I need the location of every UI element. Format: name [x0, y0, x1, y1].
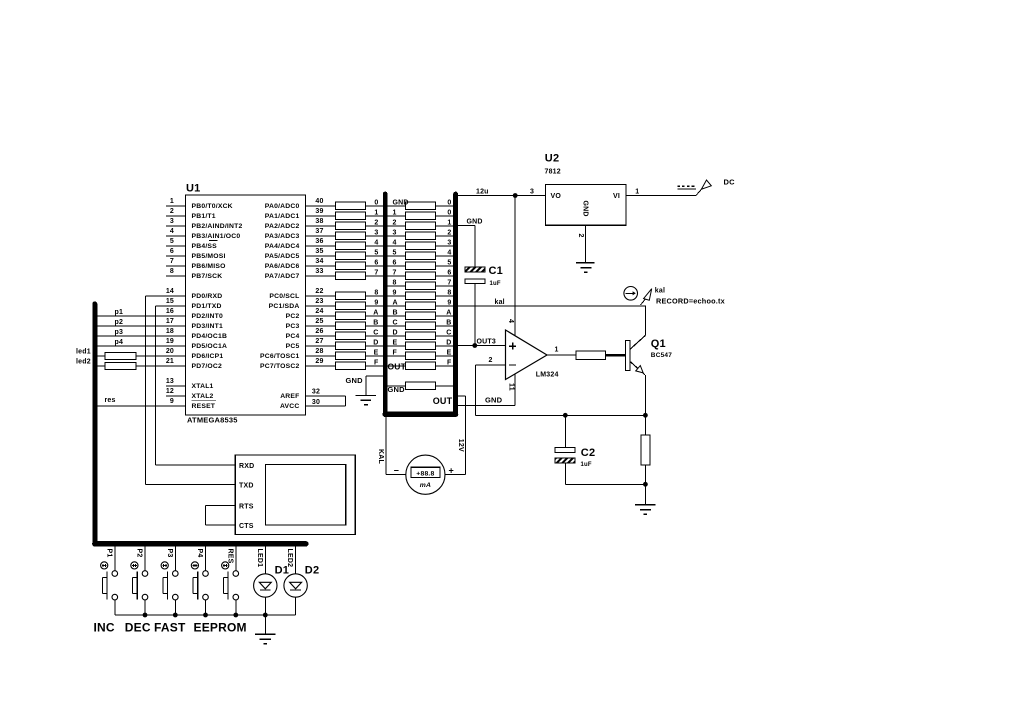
- svg-text:AVCC: AVCC: [280, 403, 300, 410]
- ground: [576, 262, 595, 264]
- svg-text:mA: mA: [420, 482, 431, 489]
- button P2 bottom contact: [142, 594, 148, 600]
- svg-text:PC0/SCL: PC0/SCL: [269, 293, 299, 300]
- svg-text:GND: GND: [346, 376, 364, 385]
- ground: [356, 395, 377, 397]
- resistor R13 (PC4 to bus): [335, 332, 365, 340]
- resistor RN8 (bus row 7/6): [406, 272, 436, 280]
- U1 pin 38 PA2/ADC2 stub: [306, 225, 336, 227]
- svg-text:8: 8: [170, 268, 174, 275]
- svg-text:ATMEGA8535: ATMEGA8535: [187, 416, 238, 425]
- junction: [233, 613, 238, 618]
- led D1 body: [254, 574, 277, 597]
- wire: [388, 335, 406, 337]
- wire: [436, 235, 454, 237]
- svg-text:36: 36: [315, 238, 323, 245]
- svg-text:5: 5: [393, 249, 397, 256]
- svg-text:2: 2: [170, 208, 174, 215]
- U1 pin 18 PD4/OC1B stub: [166, 335, 186, 337]
- svg-text:2: 2: [489, 357, 493, 364]
- U1 pin 28 PC6/TOSC1 stub: [306, 355, 336, 357]
- wire: [365, 345, 383, 347]
- svg-text:26: 26: [315, 328, 323, 335]
- svg-text:7: 7: [393, 269, 397, 276]
- svg-text:P4: P4: [196, 549, 203, 558]
- U1 pin 34 PA6/ADC6 stub: [306, 265, 336, 267]
- svg-text:OUT: OUT: [388, 361, 407, 371]
- wire: [436, 315, 454, 317]
- capacitor C2 plate (hatched): [555, 458, 575, 463]
- svg-text:RTS: RTS: [239, 504, 254, 511]
- svg-text:3: 3: [393, 229, 397, 236]
- button P2 wire top: [144, 547, 146, 571]
- wire: [388, 305, 406, 307]
- svg-text:1: 1: [374, 209, 378, 216]
- button P2 actuator icon: [131, 562, 138, 569]
- resistor R7 (PA6 to bus): [335, 262, 365, 270]
- wire: [97, 365, 105, 367]
- svg-text:0: 0: [374, 199, 378, 206]
- svg-text:RECORD=echoo.tx: RECORD=echoo.tx: [656, 296, 725, 305]
- resistor RN16 (bus row F/E): [406, 352, 436, 360]
- svg-text:PB0/T0/XCK: PB0/T0/XCK: [192, 203, 233, 210]
- button RES pole: [227, 571, 229, 599]
- op-amp pin 2 wire: [476, 364, 506, 366]
- U1 pin 13 XTAL1 stub: [166, 385, 186, 387]
- svg-text:p4: p4: [115, 339, 124, 346]
- button P4 actuator bracket: [192, 578, 194, 594]
- wire: [564, 415, 566, 447]
- resistor R5 (PA4 to bus): [335, 242, 365, 250]
- wire: [365, 355, 383, 357]
- svg-text:F: F: [374, 359, 379, 366]
- button P4 actuator icon: [191, 562, 198, 569]
- junction: [643, 482, 648, 487]
- wire p2: [97, 325, 186, 327]
- svg-text:PC7/TOSC2: PC7/TOSC2: [260, 363, 299, 370]
- wire: [136, 355, 185, 357]
- svg-text:PC3: PC3: [286, 323, 300, 330]
- wire: [365, 225, 383, 227]
- button P3 actuator bracket: [162, 578, 164, 594]
- svg-text:34: 34: [315, 258, 323, 265]
- svg-text:D2: D2: [305, 564, 319, 576]
- wire: [436, 265, 454, 267]
- svg-text:E: E: [393, 339, 398, 346]
- thick base wire: [606, 354, 626, 357]
- led D2 triangle: [290, 582, 302, 589]
- resistor R14 (PC5 to bus): [335, 342, 365, 350]
- svg-text:PB6/MISO: PB6/MISO: [192, 263, 226, 270]
- svg-text:F: F: [447, 359, 452, 366]
- resistor R12 (PC3 to bus): [335, 322, 365, 330]
- resistor R10 (PC1 to bus): [335, 302, 365, 310]
- U1 pin 4 PB3/AIN1/OC0 stub: [166, 235, 186, 237]
- button P1 actuator bracket: [101, 578, 103, 594]
- transistor Q1 base bar: [625, 340, 630, 370]
- svg-text:2: 2: [393, 219, 397, 226]
- svg-text:PD2/INT0: PD2/INT0: [192, 313, 223, 320]
- svg-text:0: 0: [447, 199, 451, 206]
- U1 pin 16 PD2/INT0 stub: [166, 315, 186, 317]
- resistor R8 (PA7 to bus): [335, 272, 365, 280]
- svg-text:PA3/ADC3: PA3/ADC3: [265, 233, 300, 240]
- resistor RN12 (bus row B/A): [406, 312, 436, 320]
- wire: [365, 376, 367, 396]
- junction: [643, 413, 648, 418]
- svg-text:4: 4: [507, 319, 514, 323]
- svg-text:C: C: [446, 329, 451, 336]
- wire: [644, 415, 646, 435]
- wire: [644, 465, 646, 484]
- wire: [388, 355, 406, 357]
- svg-text:37: 37: [315, 228, 323, 235]
- svg-text:B: B: [393, 309, 398, 316]
- button P4 top contact: [203, 571, 209, 577]
- resistor R4 (PA3 to bus): [335, 232, 365, 240]
- svg-text:PD7/OC2: PD7/OC2: [192, 363, 223, 370]
- button P4 pole: [197, 571, 199, 599]
- button P1 wire bottom: [114, 600, 116, 615]
- U1 pin 30 AVCC stub: [306, 405, 346, 407]
- svg-text:5: 5: [374, 249, 378, 256]
- svg-text:19: 19: [166, 338, 174, 345]
- svg-text:6: 6: [393, 259, 397, 266]
- svg-text:2: 2: [447, 229, 451, 236]
- wire: [388, 235, 406, 237]
- U1 pin 19 PD5/OC1A stub: [166, 345, 186, 347]
- svg-text:16: 16: [166, 308, 174, 315]
- wire: [365, 315, 383, 317]
- resistor R3 (PA2 to bus): [335, 222, 365, 230]
- wire 12u rail: [458, 195, 545, 197]
- svg-text:E: E: [447, 349, 452, 356]
- button P2 top contact: [142, 571, 148, 577]
- resistor RN3 (bus row 2/1): [406, 222, 436, 230]
- svg-text:38: 38: [315, 218, 323, 225]
- svg-text:OUT3: OUT3: [477, 338, 496, 345]
- button P3 wire top: [174, 547, 176, 571]
- wire OUT to meter: [458, 395, 466, 397]
- wire kal: [458, 305, 646, 307]
- button RES top contact: [233, 571, 239, 577]
- svg-text:PC6/TOSC1: PC6/TOSC1: [260, 353, 299, 360]
- svg-text:RESET: RESET: [192, 403, 216, 410]
- wire: [436, 335, 454, 337]
- resistor R2 (base): [576, 351, 606, 359]
- ground: [644, 484, 646, 505]
- wire: [474, 226, 476, 268]
- wire: [436, 345, 454, 347]
- U1 pin 22 PC0/SCL stub: [306, 295, 336, 297]
- led D2 body: [284, 574, 307, 597]
- wire: [436, 215, 454, 217]
- wire res: [97, 405, 186, 407]
- wire: [388, 215, 406, 217]
- svg-text:6: 6: [447, 269, 451, 276]
- resistor RN1 (bus row GND/0): [406, 202, 436, 210]
- svg-text:PB7/SCK: PB7/SCK: [192, 273, 223, 280]
- button P2 pole: [136, 571, 138, 599]
- svg-text:20: 20: [166, 348, 174, 355]
- svg-text:PB4/SS: PB4/SS: [192, 243, 218, 250]
- svg-text:FAST: FAST: [154, 620, 186, 634]
- svg-text:1uF: 1uF: [581, 462, 592, 468]
- svg-text:AREF: AREF: [280, 393, 299, 400]
- resistor R1 (PA0 to bus): [335, 202, 365, 210]
- U1 pin 5 PB4/SS stub: [166, 245, 186, 247]
- U1 pin 33 PA7/ADC7 stub: [306, 275, 336, 277]
- wire: [365, 365, 383, 367]
- U1 pin 1 PB0/T0/XCK stub: [166, 205, 186, 207]
- svg-text:+: +: [448, 466, 453, 476]
- svg-text:12V: 12V: [457, 439, 464, 452]
- resistor R5 (emitter): [641, 435, 650, 465]
- resistor RN18 (bus GND row): [406, 382, 436, 390]
- svg-text:kal: kal: [655, 288, 665, 295]
- wire: [365, 335, 383, 337]
- wire RTS-CTS loop: [206, 505, 236, 507]
- svg-text:PC2: PC2: [286, 313, 300, 320]
- svg-text:PC4: PC4: [286, 333, 300, 340]
- U1 pin 27 PC5 stub: [306, 345, 336, 347]
- IC U1 ATMEGA8535 body: [186, 195, 306, 415]
- resistor RN14 (bus row D/C): [406, 332, 436, 340]
- button P1 bottom contact: [112, 594, 118, 600]
- wire TXD: [146, 484, 236, 486]
- svg-text:30: 30: [312, 399, 320, 406]
- svg-text:25: 25: [315, 318, 323, 325]
- svg-text:3: 3: [530, 188, 534, 195]
- svg-text:3: 3: [170, 218, 174, 225]
- svg-text:XTAL2: XTAL2: [192, 393, 214, 400]
- svg-text:GND: GND: [467, 218, 483, 225]
- button RES wire top: [235, 547, 237, 571]
- button P3 wire bottom: [174, 600, 176, 615]
- svg-text:1: 1: [635, 188, 639, 195]
- svg-text:4: 4: [447, 249, 451, 256]
- svg-text:PA1/ADC1: PA1/ADC1: [265, 213, 300, 220]
- resistor RN15 (bus row E/D): [406, 342, 436, 350]
- wire: [388, 385, 406, 387]
- svg-text:33: 33: [315, 268, 323, 275]
- resistor R11 (PC2 to bus): [335, 312, 365, 320]
- svg-text:res: res: [105, 397, 116, 404]
- led D1 cathode bar: [260, 589, 271, 591]
- svg-text:PA4/ADC4: PA4/ADC4: [265, 243, 300, 250]
- wire pin15 to vertical: [155, 305, 185, 307]
- junction: [203, 613, 208, 618]
- U1 pin 21 PD7/OC2 stub: [166, 365, 186, 367]
- svg-text:PA7/ADC7: PA7/ADC7: [265, 273, 300, 280]
- svg-text:PA5/ADC5: PA5/ADC5: [265, 253, 300, 260]
- wire meter minus: [385, 417, 387, 475]
- svg-text:GND: GND: [388, 385, 406, 394]
- Q1 emitter: [630, 362, 645, 375]
- svg-text:4: 4: [393, 239, 397, 246]
- svg-text:PB2/AIND/INT2: PB2/AIND/INT2: [192, 223, 243, 230]
- U1 pin 17 PD3/INT1 stub: [166, 325, 186, 327]
- U2 pin 1 wire: [626, 195, 696, 197]
- junction: [263, 613, 268, 618]
- mcu bus vertical: [92, 304, 97, 544]
- button RES wire bottom: [235, 600, 237, 615]
- bus left leg: [383, 194, 388, 414]
- button P1 pole: [106, 571, 108, 599]
- svg-text:12: 12: [166, 388, 174, 395]
- resistor R2 (PA1 to bus): [335, 212, 365, 220]
- svg-text:led2: led2: [76, 358, 91, 365]
- button P1 actuator icon: [101, 562, 108, 569]
- wire emitter down: [644, 375, 646, 416]
- wire p1: [97, 315, 186, 317]
- svg-text:A: A: [373, 309, 378, 316]
- svg-text:2: 2: [577, 234, 584, 238]
- resistor RN11 (bus row A/9): [406, 302, 436, 310]
- button RES bottom contact: [233, 594, 239, 600]
- svg-text:12u: 12u: [476, 188, 489, 195]
- svg-text:21: 21: [166, 358, 174, 365]
- U1 pin 26 PC4 stub: [306, 335, 336, 337]
- svg-text:PD4/OC1B: PD4/OC1B: [192, 333, 228, 340]
- wire bottom rail: [115, 614, 296, 616]
- junction on OUT3: [472, 343, 477, 348]
- svg-text:6: 6: [374, 259, 378, 266]
- op-amp pin 11 wire: [514, 374, 516, 405]
- op-amp U3 LM324: [506, 330, 548, 380]
- wire: [436, 295, 454, 297]
- svg-text:C1: C1: [489, 265, 503, 277]
- svg-text:PA0/ADC0: PA0/ADC0: [265, 203, 300, 210]
- U1 pin 24 PC2 stub: [306, 315, 336, 317]
- svg-text:EEPROM: EEPROM: [194, 620, 247, 634]
- U1 pin 20 PD6/ICP1 stub: [166, 355, 186, 357]
- resistor R7 (led2): [105, 362, 136, 369]
- U1 pin 39 PA1/ADC1 stub: [306, 215, 336, 217]
- ammeter body: [406, 455, 445, 494]
- wire RXD: [155, 464, 235, 466]
- svg-text:18: 18: [166, 328, 174, 335]
- svg-text:9: 9: [393, 289, 397, 296]
- U2 pin 2 wire: [585, 225, 587, 263]
- svg-text:7: 7: [374, 269, 378, 276]
- ground: [264, 615, 266, 634]
- wire: [365, 295, 383, 297]
- svg-text:VI: VI: [613, 193, 620, 200]
- U1 pin 35 PA5/ADC5 stub: [306, 255, 336, 257]
- resistor RN17 (bus row OUT/F): [406, 362, 436, 370]
- svg-text:PA6/ADC6: PA6/ADC6: [265, 263, 300, 270]
- button P3 top contact: [173, 571, 179, 577]
- svg-text:PD1/TXD: PD1/TXD: [192, 303, 222, 310]
- wire: [436, 285, 454, 287]
- wire: [564, 463, 566, 484]
- svg-text:DC: DC: [724, 177, 736, 186]
- button P2 wire bottom: [144, 600, 146, 615]
- wire: [436, 305, 454, 307]
- wire: [436, 255, 454, 257]
- svg-text:7: 7: [170, 258, 174, 265]
- U1 pin 40 PA0/ADC0 stub: [306, 205, 336, 207]
- resistor R15 (PC6 to bus): [335, 352, 365, 360]
- capacitor C1 plate (hatched): [465, 267, 485, 272]
- svg-text:−: −: [394, 465, 399, 475]
- resistor RN10 (bus row 9/8): [406, 292, 436, 300]
- resistor RN6 (bus row 5/4): [406, 252, 436, 260]
- svg-text:0: 0: [447, 209, 451, 216]
- svg-text:4: 4: [374, 239, 378, 246]
- button P1 top contact: [112, 571, 118, 577]
- wire feedback: [476, 414, 646, 416]
- svg-text:D: D: [446, 339, 451, 346]
- wire pin14 to vertical: [146, 295, 186, 297]
- resistor RN5 (bus row 4/3): [406, 242, 436, 250]
- wire: [474, 284, 476, 346]
- wire: [436, 275, 454, 277]
- svg-text:8: 8: [374, 289, 378, 296]
- svg-text:PD5/OC1A: PD5/OC1A: [192, 343, 228, 350]
- svg-text:7: 7: [447, 279, 451, 286]
- svg-text:p1: p1: [115, 309, 124, 316]
- svg-text:3: 3: [447, 239, 451, 246]
- svg-text:GND: GND: [582, 201, 589, 217]
- overline on SS: [209, 239, 218, 241]
- ammeter display: [411, 467, 440, 477]
- DC input plug lines: [677, 185, 696, 187]
- wire: [458, 225, 475, 227]
- svg-text:5: 5: [447, 259, 451, 266]
- svg-text:11: 11: [508, 383, 515, 391]
- U1 pin 7 PB6/MISO stub: [166, 265, 186, 267]
- svg-text:p2: p2: [115, 319, 124, 326]
- wire: [436, 325, 454, 327]
- op-amp output wire pin 1: [547, 354, 576, 356]
- svg-text:22: 22: [315, 288, 323, 295]
- svg-text:8: 8: [393, 279, 397, 286]
- svg-text:14: 14: [166, 288, 174, 295]
- overline on RESET: [192, 399, 217, 401]
- svg-text:INC: INC: [94, 620, 115, 634]
- svg-text:XTAL1: XTAL1: [192, 383, 214, 390]
- wire: [436, 385, 454, 387]
- junction: [143, 613, 148, 618]
- button RES actuator bracket: [222, 578, 224, 594]
- svg-text:TXD: TXD: [239, 483, 254, 490]
- svg-text:p3: p3: [115, 329, 124, 336]
- led LED1 wire top: [264, 547, 266, 587]
- svg-text:PB5/MOSI: PB5/MOSI: [192, 253, 226, 260]
- svg-text:PD6/ICP1: PD6/ICP1: [192, 353, 224, 360]
- led D1 wire bottom: [264, 597, 266, 615]
- U1 pin 12 XTAL2 stub: [166, 395, 186, 397]
- svg-text:9: 9: [374, 299, 378, 306]
- led D2 wire bottom: [295, 597, 297, 615]
- svg-text:29: 29: [315, 358, 323, 365]
- button P4 wire top: [205, 547, 207, 571]
- svg-text:1: 1: [170, 198, 174, 205]
- wire p4: [97, 345, 186, 347]
- wire: [388, 285, 406, 287]
- U1 pin 32 AREF stub: [306, 395, 346, 397]
- button P1 wire top: [114, 547, 116, 571]
- svg-text:5: 5: [170, 238, 174, 245]
- svg-text:A: A: [446, 309, 451, 316]
- svg-text:VO: VO: [551, 193, 562, 200]
- wire: [388, 225, 406, 227]
- svg-text:LED2: LED2: [286, 549, 293, 568]
- svg-text:1: 1: [393, 209, 397, 216]
- wire: [388, 265, 406, 267]
